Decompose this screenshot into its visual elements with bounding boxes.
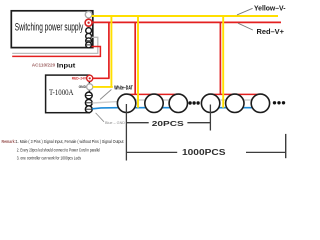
- svg-text:Switching power supply: Switching power supply: [15, 22, 84, 34]
- wire white segment pixel2-pixel3: [154, 99, 178, 101]
- wire white data controller to pixel 1: [92, 102, 117, 103]
- svg-text:Blue – GND: Blue – GND: [105, 121, 126, 125]
- svg-text:3. one controller can work fo: 3. one controller can work for 1000pcs L…: [17, 156, 82, 162]
- wire yellow drop to pixel group 2: [222, 16, 224, 108]
- terminal AC L2: [86, 42, 92, 48]
- pixel LED2: [145, 94, 163, 112]
- pin output CLK terminal: [85, 92, 92, 99]
- wire yellow V- rail: [92, 15, 279, 17]
- svg-text:Red–V+: Red–V+: [257, 27, 285, 36]
- svg-text:White–DAT: White–DAT: [114, 85, 133, 91]
- pixel LED21: [201, 94, 219, 112]
- power supply PSU1 box: [11, 11, 93, 48]
- leader to yellow rail: [237, 8, 253, 15]
- wire red segment pixel22-pixel23: [235, 93, 261, 95]
- controller U1 T-1000A box: [46, 75, 90, 113]
- svg-text:2. Every 20pcs led should con: 2. Every 20pcs led should connect to Pow…: [17, 147, 100, 153]
- svg-text:AC110/220: AC110/220: [32, 63, 56, 68]
- leader to Blue-GND note: [96, 113, 104, 122]
- wire white segment pixel1-pixel2: [127, 99, 154, 101]
- wire yellow drop to controller GND: [110, 16, 112, 87]
- wire red segment pixel2-pixel3: [154, 93, 178, 95]
- terminal AC L: [86, 38, 92, 44]
- pin GND terminal: [87, 84, 93, 90]
- pixel LED1: [117, 94, 135, 112]
- svg-text:GND: GND: [79, 85, 87, 89]
- pin output GND terminal: [85, 106, 92, 113]
- wire red segment pixel21-pixel22: [211, 93, 235, 95]
- wire red drop to pixel group 2: [219, 22, 221, 94]
- wire red V+ to controller: [93, 77, 110, 79]
- ellipsis dots group 1: [188, 101, 191, 104]
- terminal AC N: [86, 33, 92, 39]
- ellipsis dots group 2: [273, 101, 276, 104]
- svg-text:Yellow–V-: Yellow–V-: [254, 4, 286, 13]
- terminal FG: [86, 28, 92, 34]
- wire red drop to pixel group 1: [134, 22, 136, 94]
- dimension line 1000PCS: [126, 151, 285, 153]
- dimension tick left (pixel 1): [125, 104, 127, 161]
- leader to red rail: [238, 23, 253, 30]
- wire blue ground controller to pixel 1: [92, 108, 118, 109]
- wire blue segment pixel1-pixel2: [127, 107, 154, 109]
- wire red drop to controller V+: [108, 22, 110, 78]
- svg-text:Input: Input: [57, 62, 76, 69]
- wire gray AC neutral loop: [12, 37, 98, 53]
- wire blue segment pixel2-pixel3: [154, 107, 178, 109]
- svg-text:Remark:1. Male ( 3 Pins ) Sig: Remark:1. Male ( 3 Pins ) Signal Input, …: [2, 139, 124, 145]
- svg-text:RED–24V: RED–24V: [72, 77, 87, 81]
- wire white segment pixel21-pixel22: [211, 99, 235, 101]
- pixel LED3: [169, 94, 187, 112]
- terminal V- (PSU yellow output): [85, 11, 92, 18]
- wire white segment pixel22-pixel23: [235, 99, 261, 101]
- wire red V+ rail: [92, 21, 281, 23]
- pin RED-24V terminal: [87, 75, 93, 81]
- wire blue segment pixel22-pixel23: [235, 107, 261, 109]
- wire yellow V- to controller: [93, 86, 113, 88]
- dimension tick right 1000PCS: [285, 134, 287, 158]
- svg-text:20PCS: 20PCS: [152, 119, 184, 128]
- wire blue segment pixel21-pixel22: [211, 107, 235, 109]
- svg-text:T-1000A: T-1000A: [49, 87, 74, 97]
- pin output DAT terminal: [85, 99, 92, 106]
- leader White-DAT to data wire: [100, 90, 111, 100]
- dimension tick right 20PCS (pixel 21): [209, 105, 211, 131]
- terminal V+ (PSU red output): [85, 19, 92, 26]
- wire red segment pixel1-pixel2: [127, 93, 154, 95]
- pixel LED22: [226, 94, 244, 112]
- wire yellow drop to pixel group 1: [137, 16, 139, 108]
- pixel LED23: [251, 94, 269, 112]
- svg-text:1000PCS: 1000PCS: [182, 148, 226, 157]
- wire red AC live loop: [12, 47, 100, 57]
- dimension line 20PCS: [126, 122, 210, 124]
